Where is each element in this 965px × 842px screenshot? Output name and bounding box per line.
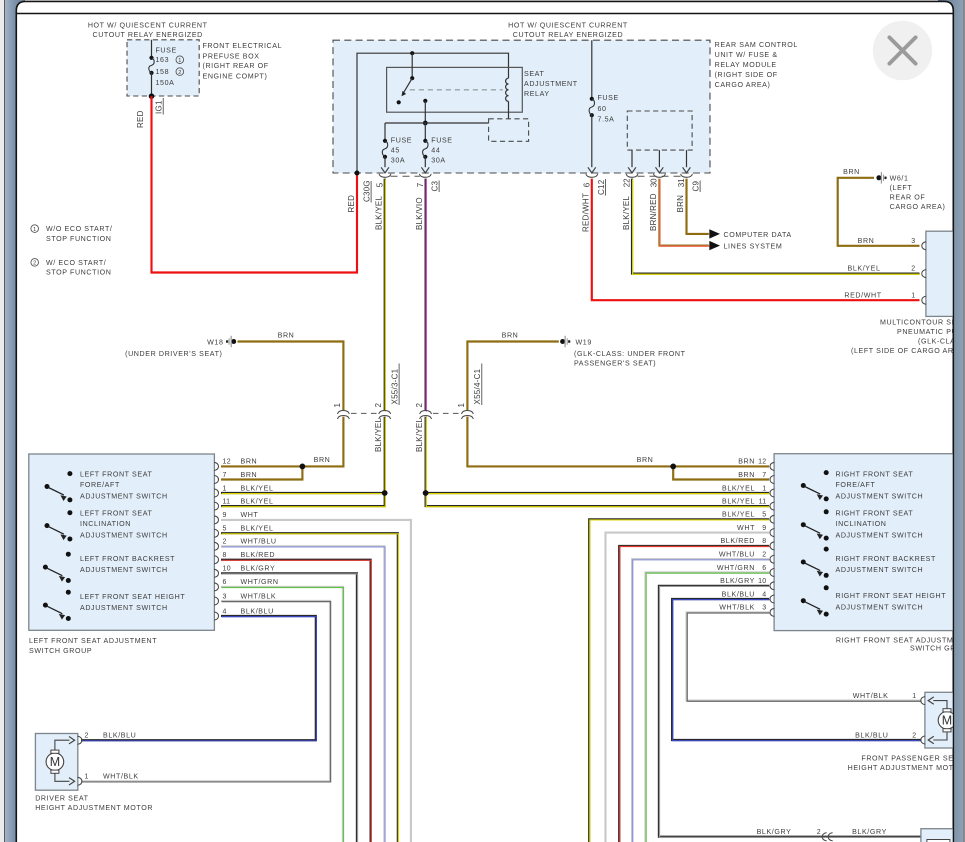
left gray gutter (0, 0, 4, 842)
svg-text:4: 4 (223, 608, 227, 615)
svg-text:BRN: BRN (241, 471, 258, 479)
svg-text:DRIVER SEAT: DRIVER SEAT (35, 794, 88, 802)
svg-text:2: 2 (912, 732, 916, 739)
svg-text:FORE/AFT: FORE/AFT (80, 481, 120, 489)
relay switch blade with arrow (404, 78, 413, 93)
svg-text:5: 5 (223, 526, 227, 533)
wire BLK/YEL below X55/4-C1 (425, 417, 427, 493)
svg-text:HOT W/ QUIESCENT CURRENT: HOT W/ QUIESCENT CURRENT (508, 22, 628, 30)
svg-text:30: 30 (650, 178, 659, 187)
svg-text:HEIGHT ADJUSTMENT MOTOR: HEIGHT ADJUSTMENT MOTOR (848, 764, 965, 772)
wire WHT/GRN right pin 6 (646, 573, 770, 842)
wire BLK/BLU right pin 4 to passenger motor pin2 (672, 599, 921, 740)
wire into fuse F163 (151, 40, 153, 58)
wire BLK/YEL right pin 5 (589, 519, 769, 842)
svg-text:LEFT FRONT SEAT HEIGHT: LEFT FRONT SEAT HEIGHT (80, 593, 185, 601)
svg-text:10: 10 (758, 578, 766, 585)
svg-text:2: 2 (817, 829, 821, 836)
svg-text:CARGO AREA): CARGO AREA) (715, 81, 771, 89)
wire BRN pin31 to data lines arrow (687, 179, 709, 234)
svg-text:W6/1: W6/1 (890, 175, 909, 183)
wire BLK/GRY left pin 10 (221, 573, 357, 842)
svg-text:8: 8 (223, 552, 227, 559)
svg-text:5: 5 (375, 182, 384, 187)
svg-text:7.5A: 7.5A (598, 115, 615, 123)
svg-text:CUTOUT RELAY ENERGIZED: CUTOUT RELAY ENERGIZED (513, 31, 623, 39)
right blue-gray strip (938, 0, 964, 842)
svg-text:BLK/YEL: BLK/YEL (374, 417, 383, 452)
svg-text:REAR OF: REAR OF (890, 194, 926, 202)
relay switch common (411, 53, 413, 78)
motor M1 symbol (46, 753, 64, 771)
svg-text:60: 60 (598, 105, 607, 113)
svg-text:9: 9 (223, 512, 227, 519)
ground W19 (560, 339, 565, 344)
fuse F163/158 150A (149, 56, 153, 60)
svg-text:BRN: BRN (278, 331, 295, 339)
svg-text:RED/WHT: RED/WHT (844, 291, 881, 299)
svg-text:BRN: BRN (843, 168, 860, 176)
wire BRN from ground W6/1 to pump pin3 (838, 178, 920, 246)
svg-text:2: 2 (762, 552, 766, 559)
computer data arrow 2 (709, 241, 720, 250)
svg-text:12: 12 (758, 459, 766, 466)
svg-text:BLK/YEL: BLK/YEL (415, 417, 424, 452)
svg-text:BLK/BLU: BLK/BLU (241, 607, 274, 615)
svg-text:RED/WHT: RED/WHT (582, 193, 591, 232)
wire BLK/RED left pin 8 (221, 560, 371, 842)
svg-text:IG1: IG1 (155, 100, 164, 114)
relay actuator dashed link (410, 89, 503, 91)
svg-text:22: 22 (622, 178, 631, 187)
relay coil (506, 78, 509, 101)
svg-text:C9: C9 (692, 180, 701, 191)
svg-text:MULTICONTOUR SEAT: MULTICONTOUR SEAT (880, 319, 965, 327)
svg-text:BLK/BLU: BLK/BLU (855, 731, 888, 739)
connector cups below box (379, 174, 391, 178)
junction dot BRN right (673, 465, 769, 467)
svg-text:(RIGHT SIDE OF: (RIGHT SIDE OF (715, 71, 778, 79)
wire coil to dashed connector box (508, 101, 510, 118)
svg-text:1: 1 (333, 403, 342, 408)
svg-text:BLK/GRY: BLK/GRY (241, 565, 276, 573)
wire BRN ground W19 to X55/4-C1 pin1 and right switch pins 12/7 (467, 342, 558, 411)
svg-text:BLK/GRY: BLK/GRY (852, 828, 887, 836)
svg-text:(LEFT: (LEFT (890, 184, 913, 192)
connector bar C9 (638, 175, 682, 177)
svg-text:WHT/GRN: WHT/GRN (717, 564, 755, 572)
svg-text:BLK/BLU: BLK/BLU (103, 732, 136, 740)
svg-text:1: 1 (911, 292, 915, 299)
svg-text:UNIT W/ FUSE &: UNIT W/ FUSE & (715, 51, 778, 59)
wire BLK/YEL left pin 5 (221, 533, 398, 842)
svg-text:(GLK-CLASS: UNDER FRONT: (GLK-CLASS: UNDER FRONT (574, 350, 686, 358)
svg-text:12: 12 (223, 459, 231, 466)
svg-text:X55/4-C1: X55/4-C1 (473, 368, 482, 404)
svg-text:RIGHT FRONT BACKREST: RIGHT FRONT BACKREST (836, 555, 936, 563)
switch: right front backrest (824, 547, 829, 552)
svg-text:2: 2 (911, 266, 915, 273)
svg-text:WHT/BLU: WHT/BLU (241, 538, 277, 546)
svg-text:M: M (50, 755, 60, 769)
rear motor box (partial, bottom right) (921, 829, 965, 842)
pump pin cups (922, 242, 926, 250)
svg-text:BLK/YEL: BLK/YEL (722, 497, 755, 505)
svg-text:INCLINATION: INCLINATION (836, 520, 887, 528)
wire WHT right pin 9 (606, 533, 770, 842)
connector bar C3 (391, 175, 420, 177)
svg-text:FUSE: FUSE (431, 137, 452, 145)
svg-text:1: 1 (762, 485, 766, 492)
svg-text:W19: W19 (576, 338, 592, 346)
svg-text:31: 31 (677, 178, 686, 187)
svg-text:BLK/BLU: BLK/BLU (722, 590, 755, 598)
ground W18 (231, 339, 236, 344)
svg-text:SEAT: SEAT (524, 70, 544, 78)
svg-text:FRONT ELECTRICAL: FRONT ELECTRICAL (203, 42, 283, 50)
svg-text:7: 7 (416, 182, 425, 187)
svg-text:SWITCH GROUP: SWITCH GROUP (29, 647, 92, 655)
svg-text:BRN: BRN (637, 456, 654, 464)
svg-text:1: 1 (912, 693, 916, 700)
svg-text:WHT: WHT (737, 524, 755, 532)
wire BLK/RED right pin 8 (619, 546, 769, 842)
driver seat height adjustment motor box (35, 734, 77, 791)
svg-text:BLK/YEL: BLK/YEL (375, 195, 384, 230)
svg-text:BLK/YEL: BLK/YEL (722, 484, 755, 492)
left box pin cups (214, 462, 218, 470)
svg-text:1: 1 (457, 403, 466, 408)
svg-text:RED: RED (136, 110, 145, 128)
svg-text:45: 45 (391, 146, 400, 154)
svg-text:1: 1 (85, 774, 89, 781)
svg-text:FORE/AFT: FORE/AFT (836, 481, 876, 489)
svg-text:ADJUSTMENT SWITCH: ADJUSTMENT SWITCH (836, 532, 924, 540)
svg-text:BRN/RED: BRN/RED (649, 193, 658, 231)
svg-text:1: 1 (223, 485, 227, 492)
svg-text:3: 3 (911, 238, 915, 245)
svg-text:163: 163 (156, 56, 170, 64)
svg-text:STOP FUNCTION: STOP FUNCTION (46, 269, 111, 277)
switch: left front seat height (66, 590, 71, 595)
relay contact dot (right) + wire down (423, 99, 427, 103)
fuse 60 7.5A (591, 40, 593, 99)
junction dot under relay (423, 121, 428, 126)
svg-text:10: 10 (223, 566, 231, 573)
wire WHT left pin 9 (221, 520, 411, 842)
front passenger seat height adjustment motor box (925, 692, 965, 748)
right box pin cups (770, 462, 774, 470)
svg-text:C12: C12 (597, 179, 606, 195)
wire BRN/RED pin30 to data lines arrow (659, 179, 708, 246)
svg-text:LINES SYSTEM: LINES SYSTEM (724, 243, 783, 251)
svg-text:WHT/BLK: WHT/BLK (853, 692, 889, 700)
svg-text:BLK/YEL: BLK/YEL (622, 195, 631, 230)
svg-text:BLK/YEL: BLK/YEL (722, 511, 755, 519)
svg-text:W/O ECO START/: W/O ECO START/ (46, 225, 112, 233)
svg-text:BLK/YEL: BLK/YEL (241, 525, 274, 533)
note 2: W/ ECO START/STOP FUNCTION (31, 259, 39, 267)
svg-text:PASSENGER'S SEAT): PASSENGER'S SEAT) (574, 359, 656, 367)
bus wire to fuses and connector (385, 122, 489, 124)
svg-text:RIGHT FRONT SEAT ADJUSTMENT: RIGHT FRONT SEAT ADJUSTMENT (836, 637, 965, 645)
wire WHT/BLK left pin 3 to driver motor pin1 (81, 601, 330, 781)
junction dot at relay feed (410, 51, 414, 55)
svg-text:LEFT FRONT BACKREST: LEFT FRONT BACKREST (80, 555, 175, 563)
svg-text:WHT/BLK: WHT/BLK (719, 604, 755, 612)
wire BLK/YEL pin5 down to X55/3-C1 (384, 179, 386, 411)
internal wire from C30G up and over to relay coil (357, 53, 509, 173)
computer data arrow 1 (709, 229, 720, 238)
svg-text:(UNDER DRIVER'S SEAT): (UNDER DRIVER'S SEAT) (125, 350, 222, 358)
svg-text:2: 2 (178, 70, 181, 76)
wire BRN ground W18 to X55/3-C1 pin1 and switch pins 12/7 (238, 342, 344, 411)
svg-text:FUSE: FUSE (391, 137, 412, 145)
wire BLK/YEL left pins 1+11 (221, 492, 385, 494)
svg-text:LEFT FRONT SEAT: LEFT FRONT SEAT (80, 470, 153, 478)
switch: right front seat inclination (824, 509, 829, 514)
svg-text:BLK/RED: BLK/RED (241, 551, 276, 559)
wire BLK/YEL below X55/3-C1 (384, 417, 386, 493)
svg-text:4: 4 (762, 591, 766, 598)
svg-text:1: 1 (178, 58, 181, 64)
svg-text:WHT/BLK: WHT/BLK (103, 773, 139, 781)
wire WHT/BLU right pin 2 (632, 559, 769, 842)
svg-text:BRN: BRN (858, 237, 875, 245)
svg-text:BRN: BRN (738, 458, 755, 466)
circled note marker 2 (176, 68, 184, 76)
svg-text:BRN: BRN (502, 331, 519, 339)
svg-text:ADJUSTMENT: ADJUSTMENT (524, 80, 578, 88)
svg-text:BLK/YEL: BLK/YEL (848, 265, 881, 273)
svg-text:LEFT FRONT SEAT ADJUSTMENT: LEFT FRONT SEAT ADJUSTMENT (29, 637, 157, 645)
junction dot BRN left (221, 465, 305, 467)
switch: left front seat inclination (67, 510, 72, 515)
svg-text:8: 8 (762, 538, 766, 545)
svg-text:RELAY MODULE: RELAY MODULE (715, 61, 777, 69)
connector C9 dashed box (627, 111, 692, 150)
svg-text:2: 2 (415, 403, 424, 408)
svg-text:2: 2 (33, 261, 36, 267)
circled note marker 1 (176, 56, 184, 64)
svg-text:2: 2 (223, 539, 227, 546)
svg-text:BRN: BRN (314, 456, 331, 464)
wire RED/WHT pin6 to pneumatic pump pin1 (592, 179, 920, 301)
svg-text:RIGHT FRONT SEAT: RIGHT FRONT SEAT (836, 470, 914, 478)
svg-text:BRN: BRN (738, 471, 755, 479)
rear SAM control unit box (dashed) (333, 40, 710, 173)
svg-text:ADJUSTMENT SWITCH: ADJUSTMENT SWITCH (836, 493, 924, 501)
svg-text:WHT/GRN: WHT/GRN (241, 578, 279, 586)
svg-text:1: 1 (33, 227, 36, 233)
ground W6/1 (876, 175, 881, 180)
inline connector X55/3-C1 (338, 411, 350, 415)
svg-text:44: 44 (431, 146, 440, 154)
driver motor pin cups (78, 736, 82, 744)
inline connector X55/4-C1 (420, 411, 432, 415)
right front seat adjustment switch group box (774, 454, 960, 631)
C9 pin drops (631, 150, 633, 167)
relay contact dot (left) (397, 100, 401, 104)
svg-text:RIGHT FRONT SEAT: RIGHT FRONT SEAT (836, 509, 914, 517)
modal title separator (16, 13, 953, 15)
svg-text:W18: W18 (207, 338, 223, 346)
svg-text:INCLINATION: INCLINATION (80, 520, 131, 528)
svg-text:6: 6 (762, 565, 766, 572)
svg-text:HOT W/ QUIESCENT CURRENT: HOT W/ QUIESCENT CURRENT (88, 22, 208, 30)
svg-text:RIGHT FRONT SEAT HEIGHT: RIGHT FRONT SEAT HEIGHT (836, 592, 947, 600)
svg-text:158: 158 (156, 68, 170, 76)
wire BLK/GRY right pin 10 to rear motor (659, 586, 921, 837)
svg-text:STOP FUNCTION: STOP FUNCTION (46, 235, 111, 243)
svg-text:BLK/YEL: BLK/YEL (241, 497, 274, 505)
left front seat adjustment switch group box (29, 454, 215, 630)
note 1: W/O ECO START/STOP FUNCTION (31, 225, 39, 233)
svg-text:11: 11 (223, 498, 231, 505)
wire BLK/BLU left pin 4 to driver motor pin2 (81, 616, 316, 740)
front electrical prefuse box (dashed) (127, 40, 199, 96)
junction dot IG1 (149, 93, 155, 99)
svg-text:PREFUSE BOX: PREFUSE BOX (203, 52, 260, 60)
svg-text:7: 7 (223, 472, 227, 479)
svg-text:C30G: C30G (363, 180, 372, 202)
svg-text:2: 2 (374, 403, 383, 408)
svg-text:BLK/GRY: BLK/GRY (757, 828, 792, 836)
svg-text:(LEFT SIDE OF CARGO AREA): (LEFT SIDE OF CARGO AREA) (851, 347, 965, 355)
inline connector on BLK/GRY (822, 833, 826, 841)
svg-text:X55/3-C1: X55/3-C1 (391, 368, 400, 404)
svg-text:ADJUSTMENT SWITCH: ADJUSTMENT SWITCH (836, 566, 924, 574)
wire WHT/BLU left pin 2 (221, 546, 384, 842)
switch: right front seat fore/aft (824, 470, 829, 475)
svg-text:BLK/GRY: BLK/GRY (720, 577, 755, 585)
wire WHT/BLK right pin 3 to passenger motor pin1 (687, 612, 921, 700)
svg-text:(RIGHT REAR OF: (RIGHT REAR OF (203, 62, 269, 70)
svg-text:FUSE: FUSE (598, 94, 619, 102)
svg-text:ADJUSTMENT SWITCH: ADJUSTMENT SWITCH (80, 493, 168, 501)
switch: left front backrest (66, 552, 71, 557)
svg-text:ADJUSTMENT SWITCH: ADJUSTMENT SWITCH (80, 566, 168, 574)
svg-text:6: 6 (582, 182, 591, 187)
svg-text:150A: 150A (156, 79, 175, 87)
svg-text:BRN: BRN (241, 458, 258, 466)
svg-text:CUTOUT RELAY ENERGIZED: CUTOUT RELAY ENERGIZED (92, 31, 202, 39)
svg-text:ADJUSTMENT SWITCH: ADJUSTMENT SWITCH (80, 532, 168, 540)
wire RED prefuse to relay box C30G (152, 96, 358, 272)
wire BLK/YEL right pins 1+11 (426, 492, 769, 494)
wire BLK/YEL pin22 to pneumatic pump pin2 (632, 179, 920, 274)
switch: right front seat height (824, 585, 829, 590)
svg-text:M: M (942, 714, 952, 728)
fuse 45 30A (384, 123, 386, 141)
wire WHT/GRN left pin 6 (221, 587, 343, 842)
svg-text:FRONT PASSENGER SEAT: FRONT PASSENGER SEAT (861, 755, 963, 763)
svg-text:11: 11 (759, 498, 767, 505)
svg-text:BLK/YEL: BLK/YEL (241, 484, 274, 492)
svg-text:FUSE: FUSE (156, 47, 177, 55)
passenger motor internal wires with arrows (933, 701, 947, 709)
motor internal wires with arrows (55, 740, 70, 750)
svg-text:WHT/BLK: WHT/BLK (241, 592, 277, 600)
svg-text:HEIGHT ADJUSTMENT MOTOR: HEIGHT ADJUSTMENT MOTOR (35, 804, 153, 812)
switch: left front seat fore/aft (67, 471, 72, 476)
svg-text:30A: 30A (391, 157, 405, 165)
svg-text:BLK/VIO: BLK/VIO (415, 197, 424, 230)
svg-text:ADJUSTMENT SWITCH: ADJUSTMENT SWITCH (836, 603, 924, 611)
svg-text:ADJUSTMENT SWITCH: ADJUSTMENT SWITCH (80, 604, 168, 612)
svg-text:C3: C3 (431, 180, 440, 191)
left blue-gray strip (5, 0, 25, 842)
svg-text:WHT: WHT (241, 511, 259, 519)
svg-text:ENGINE COMPT): ENGINE COMPT) (203, 73, 268, 81)
svg-text:2: 2 (85, 733, 89, 740)
passenger motor pin cups (921, 697, 925, 705)
node C30G junction dot (355, 171, 360, 176)
svg-text:9: 9 (762, 525, 766, 532)
wire BLK/VIO pin7 down to X55/4-C1 (425, 179, 427, 411)
svg-text:3: 3 (223, 593, 227, 600)
svg-text:RED: RED (347, 195, 356, 213)
svg-text:5: 5 (762, 512, 766, 519)
svg-text:CARGO AREA): CARGO AREA) (890, 203, 946, 211)
svg-text:WHT/BLU: WHT/BLU (719, 551, 755, 559)
svg-text:30A: 30A (431, 157, 445, 165)
exit arrows along box bottom (381, 167, 389, 173)
svg-text:W/ ECO START/: W/ ECO START/ (46, 259, 106, 267)
svg-text:6: 6 (223, 579, 227, 586)
motor M2 symbol (938, 712, 956, 730)
svg-text:7: 7 (762, 472, 766, 479)
svg-text:COMPUTER DATA: COMPUTER DATA (724, 231, 792, 239)
multicontour seat pneumatic pump box (926, 231, 965, 316)
small dashed box under relay (489, 119, 529, 142)
seat adjustment relay box (387, 67, 523, 112)
svg-text:LEFT FRONT SEAT: LEFT FRONT SEAT (80, 509, 153, 517)
svg-text:RELAY: RELAY (524, 90, 550, 98)
svg-text:3: 3 (762, 605, 766, 612)
svg-text:BRN: BRN (676, 195, 685, 213)
fuse 44 30A (424, 123, 426, 141)
svg-text:BLK/RED: BLK/RED (720, 537, 755, 545)
close (X) button (873, 21, 932, 80)
svg-text:REAR SAM CONTROL: REAR SAM CONTROL (715, 41, 798, 49)
